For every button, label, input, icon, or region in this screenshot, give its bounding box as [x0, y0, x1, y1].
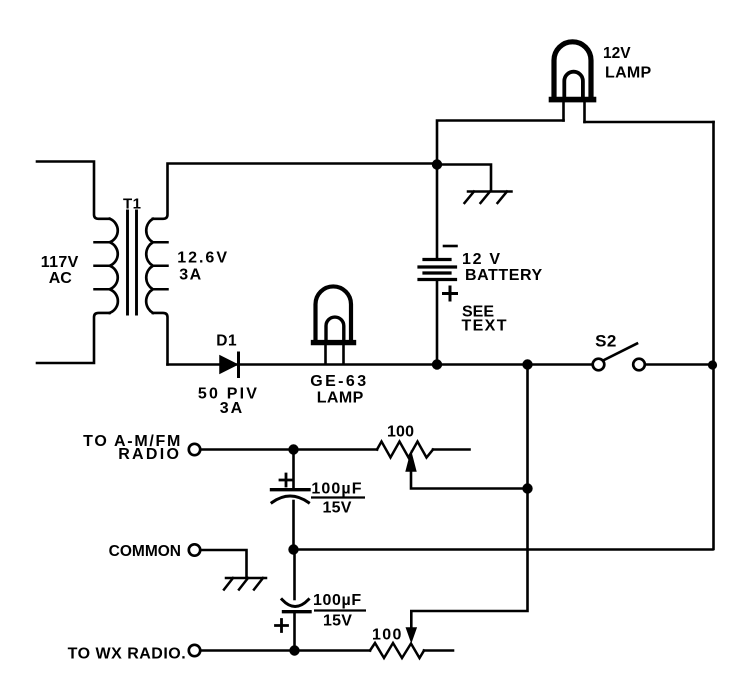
junction WX node: [289, 645, 299, 655]
pot R1 right lead: [433, 448, 470, 451]
wire switch to right rail: [645, 363, 714, 366]
fraction bar C2 value: [314, 609, 366, 611]
wire COMMON to ground: [201, 550, 247, 577]
svg-text:12 V: 12 V: [462, 251, 502, 268]
svg-text:RADIO: RADIO: [118, 446, 181, 463]
transformer T1 secondary winding: [146, 219, 153, 313]
12V lamp bulb outline: [554, 42, 591, 98]
chassis ground top: [465, 192, 512, 204]
battery plus sign: [444, 287, 457, 300]
svg-text:12V: 12V: [603, 45, 631, 62]
junction wiper rail: [522, 483, 532, 493]
pot R2 right lead: [424, 649, 453, 652]
svg-text:TO WX RADIO.: TO WX RADIO.: [68, 646, 187, 663]
capacitor C2 plus sign: [276, 620, 288, 632]
svg-text:LAMP: LAMP: [317, 390, 364, 407]
diode D1 cathode bar: [237, 353, 240, 377]
pot R2 wiper arrow: [407, 628, 417, 642]
svg-text:GE-63: GE-63: [310, 373, 368, 390]
pot R1 wiper arrow: [406, 453, 416, 472]
wire node A up to lamp: [437, 121, 564, 165]
junction switch right: [708, 360, 717, 369]
pot R1 wiper wire: [411, 469, 528, 489]
capacitor C2 curved plate: [282, 600, 309, 607]
junction battery/main rail: [432, 359, 442, 369]
switch S2 lever: [604, 344, 637, 361]
T1 primary ticks: [95, 242, 110, 289]
pot R2 100 zigzag: [370, 643, 424, 658]
12V lamp base bar: [552, 97, 594, 103]
svg-text:TEXT: TEXT: [462, 318, 508, 335]
terminal TO WX RADIO: [189, 645, 200, 656]
battery minus sign: [444, 245, 457, 248]
12V lamp leads: [564, 102, 585, 122]
switch S2 contacts: [593, 359, 605, 371]
capacitor C2 plus plate: [284, 610, 311, 613]
wire WX to pot R2: [201, 649, 371, 652]
junction common node: [288, 544, 298, 554]
svg-text:BATTERY: BATTERY: [465, 267, 543, 284]
capacitor C2 bottom wire: [293, 613, 296, 650]
capacitor C1 plus sign: [280, 474, 292, 486]
fraction bar C1 value: [311, 496, 365, 498]
GE-63 lamp base bar: [314, 340, 354, 345]
svg-text:3A: 3A: [179, 267, 202, 284]
capacitor C1 curved plate: [272, 496, 309, 503]
wire node A to battery: [436, 165, 439, 259]
wire AM/FM to pot R1: [201, 448, 378, 451]
GE-63 lamp bulb outline: [316, 286, 352, 340]
junction pot rail/main rail: [522, 359, 532, 369]
capacitor C1 plus plate: [272, 488, 310, 491]
wire ground stub top: [437, 165, 491, 191]
svg-text:12.6V: 12.6V: [177, 250, 229, 267]
GE-63 lamp leads: [326, 345, 344, 364]
12V lamp inner envelope: [564, 72, 583, 97]
svg-text:100µF: 100µF: [311, 481, 362, 498]
battery B1 plates: [419, 260, 456, 280]
capacitor C1 bottom wire: [292, 501, 295, 549]
svg-text:AC: AC: [49, 270, 73, 287]
svg-text:117V: 117V: [41, 254, 79, 271]
transformer T1 primary winding: [110, 219, 118, 313]
svg-text:S2: S2: [595, 332, 617, 351]
svg-text:D1: D1: [216, 333, 237, 350]
capacitor C2 top wire: [293, 550, 296, 600]
diode D1: [220, 356, 237, 373]
T1 core: [128, 211, 137, 314]
wire vertical from main rail down: [411, 365, 527, 630]
wire secondary bottom: [153, 313, 168, 365]
wire common rail: [294, 548, 713, 551]
terminal COMMON: [189, 544, 200, 555]
svg-text:T1: T1: [123, 196, 142, 213]
wire secondary top to node A: [153, 164, 437, 219]
terminal TO A-M/FM RADIO: [189, 444, 200, 455]
wire right vertical rail: [712, 122, 715, 549]
GE-63 lamp inner envelope: [326, 317, 344, 340]
svg-text:100: 100: [372, 627, 403, 644]
capacitor C1 top wire: [292, 450, 295, 489]
svg-text:LAMP: LAMP: [605, 65, 652, 82]
pot R1 100 zigzag: [377, 442, 433, 458]
wire primary top: [37, 162, 110, 219]
junction node A: [432, 159, 442, 169]
svg-text:15V: 15V: [323, 613, 352, 630]
wire main rail through D1: [168, 363, 593, 366]
junction AM/FM node: [288, 444, 298, 454]
wire primary bottom: [37, 313, 110, 363]
svg-text:3A: 3A: [220, 400, 244, 417]
wire top right: [585, 121, 714, 124]
wire battery to main rail: [436, 280, 439, 365]
T1 secondary ticks: [153, 242, 168, 289]
svg-text:100: 100: [387, 424, 414, 441]
svg-text:100µF: 100µF: [313, 592, 362, 609]
chassis ground lower: [224, 578, 266, 590]
svg-text:15V: 15V: [323, 500, 352, 517]
svg-text:COMMON: COMMON: [109, 543, 181, 560]
